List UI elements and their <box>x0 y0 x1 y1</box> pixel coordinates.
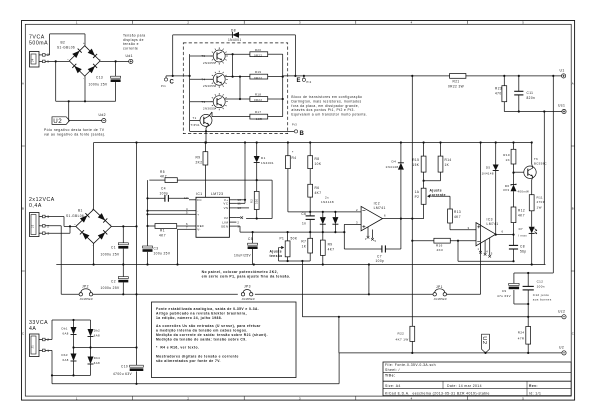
svg-text:Darlington, mais resistores, m: Darlington, mais resistores, montados <box>291 99 361 103</box>
svg-text:C9: C9 <box>502 289 507 293</box>
svg-text:R9: R9 <box>328 243 333 247</box>
resistor R9 <box>196 143 208 198</box>
wire emitter T4 to R19 <box>225 76 250 78</box>
svg-text:C1: C1 <box>111 246 116 250</box>
wire R14 bottom to P2 top <box>423 172 441 182</box>
svg-text:1N4148: 1N4148 <box>321 200 334 204</box>
svg-text:6A8: 6A8 <box>94 333 100 337</box>
capacitor C5 <box>234 232 258 266</box>
wire bridge right to Ud1 <box>100 60 129 62</box>
wire ground mid rail <box>56 263 545 265</box>
wire DC plus rail <box>72 346 137 348</box>
svg-text:T5: T5 <box>201 54 205 58</box>
svg-text:Db2: Db2 <box>94 329 100 333</box>
wire R13 to IC3 plus <box>450 223 476 230</box>
wire FC compensation net <box>177 179 272 181</box>
diode Db3 <box>62 348 77 376</box>
svg-text:10uF/25V: 10uF/25V <box>234 253 251 257</box>
svg-text:3: 3 <box>299 20 301 24</box>
wire U1 to bornes vertical <box>552 76 554 273</box>
svg-text:V-: V- <box>197 228 201 232</box>
resistor R22 <box>396 76 415 353</box>
svg-text:Rev:: Rev: <box>529 384 538 388</box>
svg-text:15K: 15K <box>412 163 419 167</box>
wire IC3 feedback <box>458 241 515 263</box>
svg-text:R23: R23 <box>495 87 502 91</box>
wire T6 base <box>514 171 524 173</box>
svg-text:100p: 100p <box>376 259 385 263</box>
svg-text:U2: U2 <box>53 118 62 125</box>
svg-text:+: + <box>83 41 85 45</box>
svg-text:1W: 1W <box>537 205 542 209</box>
wire IC2 inv input net <box>288 211 361 213</box>
power flag U2 bottom <box>481 334 489 353</box>
svg-text:0R22: 0R22 <box>254 53 262 57</box>
svg-text:~: ~ <box>110 223 112 227</box>
svg-text:4: 4 <box>411 20 413 24</box>
wire 7V negative rail <box>55 60 116 102</box>
svg-text:Medição da tensão de saída: te: Medição da tensão de saída: tensão sobre… <box>156 338 247 342</box>
svg-text:R22: R22 <box>398 332 405 336</box>
wire main positive vertical <box>136 143 138 348</box>
svg-text:Date: 14 mar 2014: Date: 14 mar 2014 <box>447 384 482 388</box>
svg-text:1: 1 <box>478 248 480 251</box>
wire ground to JP1 rail link <box>368 263 370 295</box>
svg-text:6A8: 6A8 <box>94 361 100 365</box>
resistor R18 <box>250 93 268 103</box>
wire AC top rail <box>52 319 91 321</box>
svg-text:P1: P1 <box>280 236 285 240</box>
svg-text:-: - <box>92 244 93 248</box>
node C <box>161 75 190 88</box>
note text box <box>152 302 297 378</box>
svg-text:Id: 1/1: Id: 1/1 <box>529 391 541 395</box>
wire T1 collector to R17 <box>209 112 250 117</box>
svg-text:~: ~ <box>74 223 76 227</box>
svg-text:1000u 25V: 1000u 25V <box>101 286 120 290</box>
svg-text:1K: 1K <box>302 245 307 249</box>
svg-text:S1-GBL06: S1-GBL06 <box>66 214 84 218</box>
svg-text:D7: D7 <box>519 227 523 231</box>
svg-text:KiCad E.D.A. eeschema (2013-0: KiCad E.D.A. eeschema (2013-05-31 BZR 40… <box>385 391 490 395</box>
svg-text:2N3055: 2N3055 <box>203 84 215 88</box>
jumper JP1 <box>433 285 447 301</box>
wire pin1 to bridge left <box>45 60 69 62</box>
svg-text:5: 5 <box>522 396 524 400</box>
svg-text:470: 470 <box>495 92 502 96</box>
op-amp IC2 <box>361 201 386 230</box>
capacitor C6 <box>301 212 314 232</box>
resistor R11 <box>529 195 545 211</box>
wire B1 right to C1 <box>111 225 137 227</box>
svg-text:5: 5 <box>375 240 377 243</box>
svg-text:R6: R6 <box>315 186 320 190</box>
wire B1 top to main rail <box>93 143 95 210</box>
svg-text:fora da placa, em dissipador g: fora da placa, em dissipador grande, <box>291 104 359 108</box>
node B <box>292 123 305 137</box>
wire pin2 up to AC top rail <box>45 320 52 340</box>
svg-text:3V3: 3V3 <box>503 188 510 192</box>
svg-text:IC2: IC2 <box>374 201 380 205</box>
resistor R20 <box>250 48 268 58</box>
svg-text:BC558C: BC558C <box>534 162 547 166</box>
wire output sense vertical <box>543 112 545 265</box>
svg-text:4: 4 <box>411 396 413 400</box>
IC2 plus input wire <box>343 220 361 249</box>
svg-text:*: * <box>292 151 294 155</box>
svg-text:R19: R19 <box>255 70 261 74</box>
svg-text:C5: C5 <box>248 237 253 241</box>
svg-text:tensão: tensão <box>270 254 283 258</box>
capacitor C8 <box>509 235 527 262</box>
wire R17 to E bus <box>268 116 283 118</box>
wire D8 rail <box>173 34 296 36</box>
capacitor C10 <box>113 348 143 385</box>
svg-text:JP2: JP2 <box>82 284 89 288</box>
resistor R16 <box>434 238 450 252</box>
svg-text:470R: 470R <box>537 200 546 204</box>
svg-text:~: ~ <box>99 57 101 61</box>
IC2 unused pins <box>365 227 377 243</box>
svg-text:Db3: Db3 <box>62 353 68 357</box>
svg-text:IC3: IC3 <box>487 218 493 222</box>
resistor R19 <box>250 70 268 80</box>
transistor T5 <box>201 47 227 64</box>
svg-text:C: C <box>170 80 175 86</box>
svg-text:Db4: Db4 <box>94 356 100 360</box>
svg-text:Mostradores digitais de tensão: Mostradores digitais de tensão e corrent… <box>156 355 239 359</box>
svg-text:JUMPER: JUMPER <box>80 297 93 301</box>
wire T6 emitter down <box>532 176 533 194</box>
svg-text:1: 1 <box>46 349 49 353</box>
svg-text:U2: U2 <box>559 345 564 349</box>
resistor R24 <box>518 317 531 354</box>
svg-text:Sheet: /: Sheet: / <box>385 368 400 372</box>
svg-text:JP3: JP3 <box>244 285 251 289</box>
svg-text:J4: J4 <box>31 58 35 62</box>
wire B1 bottom to 0V rail <box>93 243 95 265</box>
svg-text:2: 2 <box>46 338 49 342</box>
svg-text:E: E <box>297 78 302 84</box>
svg-text:Ajuste: Ajuste <box>430 189 442 193</box>
svg-text:corrente: corrente <box>123 46 138 50</box>
svg-text:6A8: 6A8 <box>63 331 69 335</box>
text tensao para displays <box>123 34 146 51</box>
resistor R8b <box>320 232 334 264</box>
svg-text:1a edição, número 24, julho 19: 1a edição, número 24, julho 1988. <box>156 316 222 320</box>
resistor R10 <box>503 143 516 185</box>
svg-text:B: B <box>300 131 305 137</box>
wire U2 flag to Ud2 <box>69 101 102 122</box>
terminal Ud2 <box>99 113 106 123</box>
capacitor C1 <box>101 226 129 265</box>
svg-text:1N4001: 1N4001 <box>261 161 274 165</box>
wire center tap to JP2 <box>61 293 79 295</box>
wire T1 emitter <box>205 125 209 144</box>
svg-text:0R22: 0R22 <box>254 76 262 80</box>
svg-text:0,4A: 0,4A <box>29 203 42 209</box>
svg-text:1000u 25V: 1000u 25V <box>89 83 108 87</box>
wire P2 bottom to IC2 out <box>423 204 425 218</box>
wire Us1 rail <box>504 110 562 112</box>
IC1 pins <box>184 196 241 232</box>
dashed block boundary <box>183 43 287 134</box>
jumper JP2 <box>79 284 93 301</box>
svg-text:T3: T3 <box>201 100 205 104</box>
svg-text:4K7: 4K7 <box>160 174 167 178</box>
svg-text:2N3055: 2N3055 <box>203 61 215 65</box>
wire bridge bottom down <box>84 76 86 101</box>
wire P1 bottom loop <box>279 260 311 262</box>
svg-text:JUMPER: JUMPER <box>434 297 447 301</box>
svg-text:R1: R1 <box>160 229 165 233</box>
LED D7 <box>518 227 537 265</box>
label 7VCA 500mA <box>29 35 48 47</box>
resistor R5 <box>149 170 177 183</box>
diode Db1 <box>62 320 77 348</box>
resistor R4 <box>286 143 297 212</box>
svg-text:3: 3 <box>46 215 49 219</box>
svg-text:R14: R14 <box>445 158 452 162</box>
svg-text:R4: R4 <box>292 156 297 160</box>
transistor T6 <box>524 157 547 178</box>
svg-text:No painel, colocar potenciômet: No painel, colocar potenciômetro 2K2, <box>202 270 279 274</box>
svg-text:Bloco de transistores em confi: Bloco de transistores em configuração <box>291 95 362 99</box>
svg-text:R8: R8 <box>315 157 320 161</box>
svg-text:100u 25V: 100u 25V <box>154 252 171 256</box>
svg-text:1A: 1A <box>415 190 420 194</box>
wire emitter T3 to R18 <box>225 98 250 100</box>
label ajuste corrente <box>430 189 446 198</box>
svg-text:P2: P2 <box>415 195 420 199</box>
svg-text:Fonte estabilizada analógica,: Fonte estabilizada analógica, saída de 0… <box>156 307 259 311</box>
svg-text:D5: D5 <box>486 165 491 169</box>
svg-text:4K7: 4K7 <box>315 191 322 195</box>
wire left column <box>146 180 148 245</box>
resistor R13 <box>448 209 461 223</box>
capacitor C12 <box>523 273 545 317</box>
svg-text:4K7: 4K7 <box>518 214 525 218</box>
wire output to bornes <box>514 272 553 284</box>
capacitor C2 <box>101 265 129 296</box>
wire bottom negative rail <box>52 383 339 385</box>
svg-text:2: 2 <box>187 20 189 24</box>
svg-text:4700u 63V: 4700u 63V <box>113 372 132 376</box>
svg-text:I max: I max <box>518 234 527 238</box>
svg-text:Medição da corrente de saída:: Medição da corrente de saída: tensão sob… <box>156 333 268 337</box>
svg-text:R5: R5 <box>160 170 165 174</box>
svg-text:Title:: Title: <box>385 373 395 377</box>
svg-text:R2: R2 <box>249 199 253 203</box>
text bloco de transistores <box>291 95 367 117</box>
svg-text:4K7: 4K7 <box>328 248 335 252</box>
svg-text:4K7: 4K7 <box>454 215 461 219</box>
wire negative rail up to output rail <box>338 353 340 384</box>
svg-text:B1: B1 <box>78 209 83 213</box>
svg-text:4: 4 <box>486 251 488 254</box>
svg-text:6: 6 <box>502 230 504 234</box>
svg-text:R11: R11 <box>537 195 543 199</box>
potentiometer P2 <box>415 172 433 204</box>
wire E bus vertical <box>282 54 284 116</box>
svg-text:B: B <box>572 207 574 211</box>
wire SEN net <box>236 226 344 233</box>
resistor R12 <box>511 207 525 235</box>
svg-text:TIP41: TIP41 <box>191 123 201 127</box>
diode D5 <box>482 143 499 236</box>
svg-text:56p: 56p <box>520 249 527 253</box>
svg-text:1: 1 <box>76 20 78 24</box>
svg-text:4K7 1W: 4K7 1W <box>396 338 409 342</box>
connector J2 2x12VCA <box>30 213 50 237</box>
svg-text:~: ~ <box>67 57 69 61</box>
wire V2 no connect <box>236 216 243 219</box>
bridge rectifier B2 <box>57 41 101 81</box>
resistor R21 shunt <box>448 74 466 89</box>
svg-text:4K3: 4K3 <box>437 248 444 252</box>
svg-text:5: 5 <box>491 253 493 256</box>
svg-text:820n: 820n <box>527 96 536 100</box>
svg-text:U2: U2 <box>481 336 487 345</box>
svg-text:LM741: LM741 <box>374 206 386 210</box>
svg-text:As conexões Us são entradas (U: As conexões Us são entradas (U sense), p… <box>156 324 261 328</box>
svg-text:0R22 3W: 0R22 3W <box>448 85 464 89</box>
svg-text:T6: T6 <box>534 157 538 161</box>
wire noninv pin stub <box>148 213 190 215</box>
svg-text:1: 1 <box>76 396 78 400</box>
svg-text:C3: C3 <box>154 246 159 250</box>
wire AC bottom rail <box>51 374 91 376</box>
power flag U2 (7V return) <box>52 117 70 125</box>
wire R19 to E bus <box>268 76 283 78</box>
svg-text:A: A <box>22 82 24 86</box>
svg-text:1: 1 <box>46 232 49 236</box>
svg-text:T4: T4 <box>201 78 205 82</box>
svg-text:Us1: Us1 <box>558 103 565 107</box>
wire E drop <box>294 35 296 77</box>
wire P1 wiper down <box>278 248 280 262</box>
svg-text:0R22: 0R22 <box>254 98 262 102</box>
svg-text:LM741: LM741 <box>487 222 499 226</box>
wire Uz to U2 link <box>338 317 340 353</box>
svg-text:R24: R24 <box>518 331 525 335</box>
svg-text:T1: T1 <box>193 116 197 120</box>
svg-text:C11: C11 <box>527 91 534 95</box>
wire aux vertical to JP1 rail <box>480 143 482 295</box>
resistor R15 <box>412 143 426 173</box>
svg-text:3: 3 <box>356 220 358 224</box>
svg-text:R9: R9 <box>196 156 201 160</box>
wire P2 wiper to R13 <box>433 196 451 209</box>
svg-text:C12: C12 <box>537 280 544 284</box>
zener D6 <box>503 184 529 207</box>
svg-text:JUMPER: JUMPER <box>242 297 255 301</box>
svg-text:Pt2: Pt2 <box>307 80 312 84</box>
svg-text:Ud1: Ud1 <box>126 54 133 58</box>
svg-text:1N4001: 1N4001 <box>228 38 242 42</box>
svg-text:2: 2 <box>187 396 189 400</box>
svg-text:C6: C6 <box>301 212 306 216</box>
svg-text:em série com P1, para ajuste f: em série com P1, para ajuste fino da ten… <box>202 275 291 279</box>
wire V+ VC to rail <box>236 143 246 204</box>
wire JP1 right <box>447 293 481 295</box>
svg-text:R15: R15 <box>412 158 419 162</box>
svg-text:J1: J1 <box>31 345 35 349</box>
svg-text:LM723: LM723 <box>211 192 223 196</box>
svg-text:R16: R16 <box>436 244 443 248</box>
capacitor C11 <box>514 76 535 112</box>
connector J4 7VCA <box>30 52 50 68</box>
svg-text:2x: 2x <box>325 196 329 200</box>
svg-text:S1-GBL06: S1-GBL06 <box>57 46 75 50</box>
svg-text:Pt1: Pt1 <box>161 84 166 88</box>
wire T6 collector up <box>531 141 533 168</box>
svg-text:10K: 10K <box>315 162 322 166</box>
svg-text:D8: D8 <box>231 29 236 33</box>
svg-text:Ajuste: Ajuste <box>270 249 282 253</box>
wire U2 output rail <box>339 352 562 354</box>
wire pin2 to bridge top <box>45 34 85 55</box>
wire base T1 <box>190 119 200 121</box>
svg-text:J2: J2 <box>31 224 35 228</box>
diode D1 <box>254 143 274 181</box>
IC2 inv label <box>356 208 358 212</box>
terminal Us1 <box>558 103 566 113</box>
svg-text:FC: FC <box>197 198 202 202</box>
label 2x12VCA <box>29 197 55 209</box>
svg-text:B: B <box>22 207 24 211</box>
svg-text:R7: R7 <box>301 240 306 244</box>
op-amp IC3 <box>476 218 499 246</box>
bridge rectifier B1 <box>66 207 112 248</box>
svg-text:6: 6 <box>384 214 386 218</box>
resistor R8 <box>308 143 322 169</box>
svg-text:1N4148: 1N4148 <box>386 165 399 169</box>
svg-text:330: 330 <box>255 198 259 204</box>
svg-text:JP1: JP1 <box>436 285 443 289</box>
wire base T3 <box>190 101 214 103</box>
terminal U1 <box>560 69 566 79</box>
svg-text:C2: C2 <box>111 280 116 284</box>
svg-text:3: 3 <box>468 226 470 230</box>
wire pin2 center tap down <box>45 226 61 294</box>
svg-text:R13: R13 <box>454 210 461 214</box>
resistor R7 <box>301 232 312 261</box>
wire emitter T5 to R20 <box>225 53 250 55</box>
svg-text:Uz2: Uz2 <box>558 309 565 313</box>
svg-text:5: 5 <box>522 20 524 24</box>
wire JP3 to JP1 rail <box>255 293 433 295</box>
diode D8 <box>228 29 242 42</box>
IC2 output wire <box>383 214 424 220</box>
wire base T5 <box>190 55 214 57</box>
IC1 LM723 body <box>196 192 229 237</box>
label 2x 1N4148 <box>321 196 334 205</box>
wire base bus vertical <box>189 54 191 120</box>
svg-text:IC1: IC1 <box>196 192 202 196</box>
wire pin3 to bridge <box>45 217 76 227</box>
svg-text:1n: 1n <box>302 222 306 226</box>
svg-text:C7: C7 <box>377 254 382 258</box>
resistor R2 <box>249 180 259 218</box>
svg-text:C13: C13 <box>96 75 103 79</box>
title block <box>383 362 571 396</box>
text polo negativo <box>44 128 106 137</box>
wire pin1 down to AC bottom rail <box>45 350 52 383</box>
IC3 output wire <box>496 230 515 236</box>
svg-text:1000u 25V: 1000u 25V <box>101 252 120 256</box>
svg-text:50K: 50K <box>291 236 298 240</box>
